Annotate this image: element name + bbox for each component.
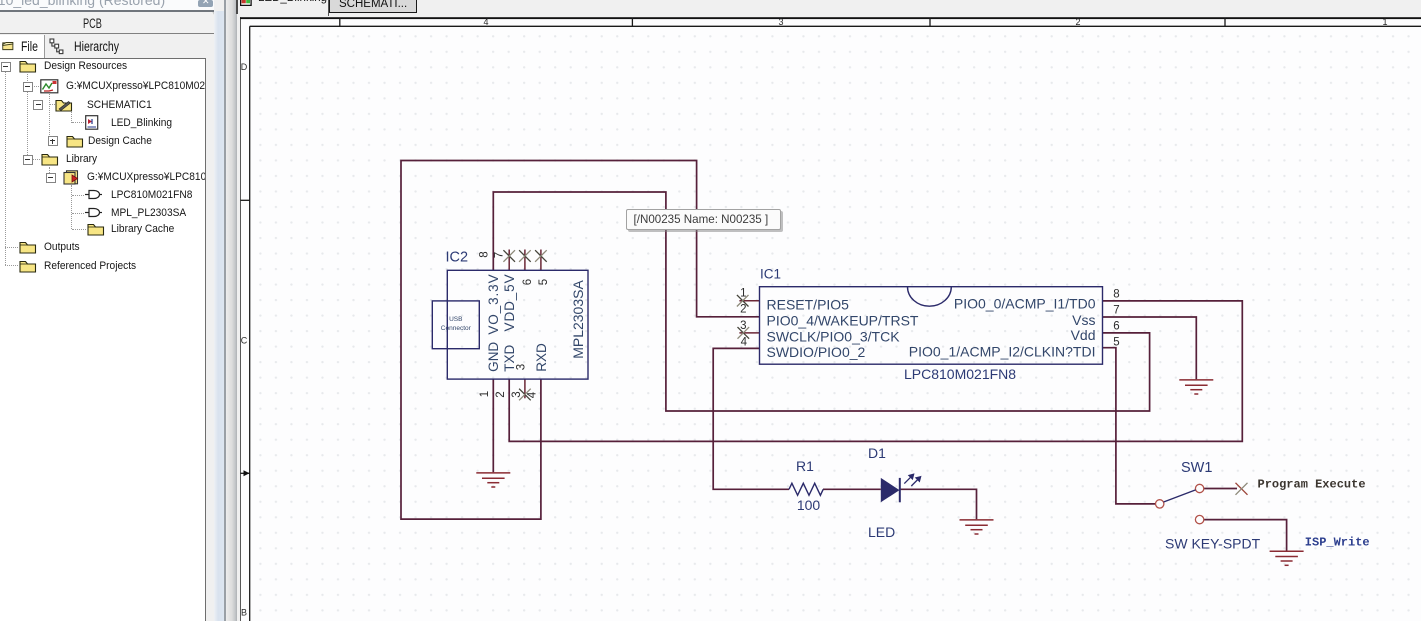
USB connector sub-symbol inside IC2 (432, 301, 479, 349)
svg-text:Vdd: Vdd (1071, 327, 1096, 343)
svg-text:R1: R1 (796, 458, 814, 474)
svg-text:2: 2 (740, 304, 746, 316)
wire R1 to LED D1 anode (823, 488, 881, 490)
pin stub IC2 pin 6 (524, 250, 526, 271)
IC U1 body: IC1 LPC810M021FN8 (760, 287, 1103, 365)
svg-text:GND: GND (486, 342, 501, 372)
row 1: Design Resources (19, 59, 37, 73)
svg-text:3: 3 (778, 17, 783, 27)
IC U2 body: IC2 MPL2303SA (447, 270, 588, 379)
close button (198, 0, 214, 7)
svg-text:VDD_5V: VDD_5V (502, 274, 517, 332)
title bar (0, 0, 214, 10)
row 8: LPC810M021FN8 (85, 189, 102, 200)
svg-text:SW1: SW1 (1181, 460, 1212, 476)
IC2 pin names GND TXD RXD VO_3.3V VDD_5V (486, 274, 549, 372)
origin arrow (244, 470, 250, 476)
pin stub IC2 pin 5 (540, 250, 542, 271)
tree box (0, 58, 206, 621)
no-connect X at IC1 pin 3 (738, 327, 750, 339)
pin stub IC1 pin 1 RESET (739, 300, 759, 302)
folder icon for File (2, 40, 14, 51)
svg-text:PIO0_4/WAKEUP/TRST: PIO0_4/WAKEUP/TRST (767, 312, 919, 328)
svg-text:1: 1 (479, 391, 491, 397)
pin stub IC2 pin 3 (524, 379, 526, 398)
row 6: Library (41, 152, 59, 166)
LED_Blinking tab icon (240, 0, 252, 6)
svg-text:RXD: RXD (534, 343, 549, 372)
top tab bar of schematic window (239, 0, 1421, 17)
wire IC1 pin5 to SW1 common (1103, 348, 1156, 504)
svg-text:PIO0_1/ACMP_I2/CLKIN?TDI: PIO0_1/ACMP_I2/CLKIN?TDI (909, 343, 1096, 359)
no-connect X at IC2 pin 6 (519, 250, 531, 262)
svg-text:8: 8 (1113, 289, 1119, 301)
svg-text:SWDIO/PIO0_2: SWDIO/PIO0_2 (767, 344, 866, 360)
page border frame (250, 25, 1421, 27)
svg-text:8: 8 (479, 251, 491, 257)
row 7: library file (63, 170, 81, 185)
svg-text:4: 4 (483, 17, 488, 27)
svg-text:VO_3.3V: VO_3.3V (486, 274, 501, 335)
wire IC1 pin7 Vss to ground (1103, 317, 1197, 379)
svg-text:3: 3 (740, 320, 746, 332)
LED_Blinking text (clipped at top) (258, 0, 327, 4)
svg-text:6: 6 (522, 279, 534, 285)
no-connect X at IC2 pin 7 (503, 250, 515, 262)
no-connect X at IC2 pin 3 (519, 389, 531, 401)
IC1 pin numbers 1 2 3 4 8 7 6 5 (740, 288, 1120, 349)
dotted guides (5, 70, 7, 265)
svg-text:ISP_Write: ISP_Write (1305, 535, 1370, 549)
pin stub IC2 pin 7 (508, 250, 510, 271)
svg-text:4: 4 (527, 391, 539, 398)
svg-text:2: 2 (1075, 17, 1080, 27)
svg-text:IC2: IC2 (446, 250, 469, 266)
File / Hierarchy tabs row (0, 35, 215, 58)
svg-text:3: 3 (515, 364, 527, 370)
svg-text:LPC810M021FN8: LPC810M021FN8 (904, 366, 1016, 382)
svg-text:100: 100 (797, 497, 821, 513)
grid dots (251, 27, 1421, 621)
wire IC1 pin4 SWDIO to resistor R1 (713, 348, 789, 489)
resistor R1 (789, 483, 823, 495)
LED D1 (881, 474, 921, 502)
IC1 pin names (767, 296, 1096, 360)
svg-text:4: 4 (741, 336, 748, 348)
no-connect X at SW1 throw (Program Execute) (1236, 483, 1248, 495)
svg-text:PIO0_0/ACMP_I1/TD0: PIO0_0/ACMP_I1/TD0 (954, 296, 1096, 312)
svg-text:5: 5 (1113, 337, 1119, 349)
ground (1270, 551, 1304, 565)
divider (328, 0, 330, 16)
row 12: Referenced Projects (19, 259, 37, 273)
splitter strips between panel and canvas (207, 0, 241, 621)
wire LED D1 cathode to ground (900, 489, 977, 519)
svg-text:1: 1 (1382, 17, 1387, 27)
svg-text:RESET/PIO5: RESET/PIO5 (767, 297, 850, 313)
svg-text:6: 6 (1113, 321, 1119, 333)
row 3: SCHEMATIC1 (55, 98, 73, 112)
svg-text:SW KEY-SPDT: SW KEY-SPDT (1165, 536, 1261, 552)
row 11: Outputs (19, 240, 37, 254)
row 9: MPL_PL2303SA (85, 207, 102, 218)
row 5: Design Cache (66, 134, 84, 148)
expand boxes (1, 62, 11, 72)
PCB bar (0, 12, 215, 34)
ground (960, 520, 994, 534)
row 4: LED_Blinking (85, 115, 99, 130)
wire IC1 pin2 PIO0_4 to IC2 pin4 RXD (401, 161, 760, 520)
zone ticks top (339, 18, 341, 27)
zone ticks left (241, 199, 250, 201)
svg-text:USB: USB (449, 316, 462, 323)
svg-text:5: 5 (538, 279, 550, 285)
wire SW1 lower throw to ground (1204, 520, 1287, 551)
SCHEMATIC tab (329, 0, 417, 13)
tooltip (626, 209, 781, 230)
title bottom line (0, 10, 214, 12)
svg-text:IC1: IC1 (760, 267, 781, 282)
svg-text:Connector: Connector (441, 325, 472, 332)
svg-text:3: 3 (511, 391, 523, 397)
switch SW1 SPDT (1156, 484, 1204, 524)
svg-text:B: B (241, 608, 247, 618)
svg-text:7: 7 (494, 252, 506, 258)
svg-text:2: 2 (495, 391, 507, 397)
row 10: Library Cache (87, 222, 105, 236)
ground (1179, 380, 1213, 394)
svg-text:D: D (241, 62, 248, 72)
wire IC2 pin 1 to ground (492, 379, 494, 472)
svg-text:Vss: Vss (1072, 312, 1095, 328)
svg-text:MPL2303SA: MPL2303SA (570, 280, 586, 359)
hierarchy icon (49, 38, 64, 55)
wire N00235: IC2 pin2 TXD to IC1 pin8 (509, 301, 1242, 442)
svg-text:1: 1 (740, 288, 746, 300)
row 2: design file (40, 79, 59, 94)
ground (476, 473, 510, 487)
svg-text:SWCLK/PIO0_3/TCK: SWCLK/PIO0_3/TCK (767, 328, 901, 344)
svg-text:7: 7 (1113, 305, 1119, 317)
IC2 pin numbers 8 7 6 5 1 2 3 4 (479, 251, 551, 398)
wire SW1 upper throw to no-connect (1204, 488, 1237, 490)
svg-text:LED: LED (868, 524, 895, 540)
wire IC2 pin8 to IC1 pin6 Vdd (493, 192, 1149, 411)
no-connect X at IC1 pin 1 (737, 295, 749, 307)
svg-text:Program Execute: Program Execute (1258, 478, 1366, 492)
no-connect X at IC2 pin 5 (535, 250, 547, 262)
svg-text:D1: D1 (868, 445, 886, 461)
window border (239, 17, 1421, 19)
left project manager panel (0, 0, 214, 621)
svg-text:C: C (241, 336, 248, 346)
pin stub IC1 pin 3 SWCLK (739, 332, 759, 334)
